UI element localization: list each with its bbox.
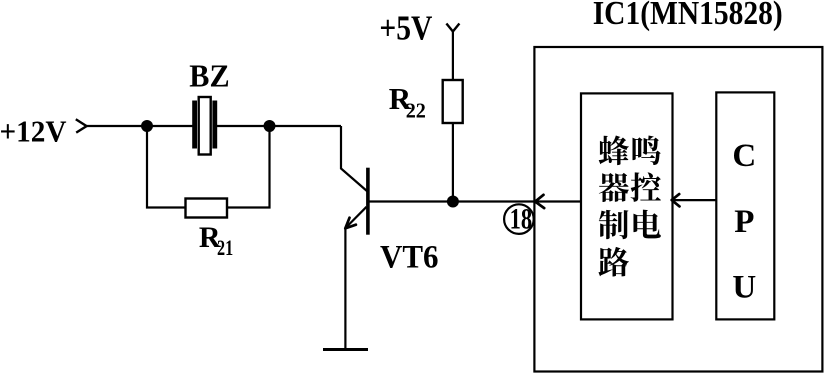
wire: CPU to buzzer-control block: [672, 199, 716, 201]
resistor R22 body: [443, 80, 463, 123]
label char "控" (kong) of 蜂鸣器控制电路: [631, 172, 661, 201]
wire: +12V rail to BZ left plate: [86, 125, 193, 127]
buzzer BZ body rectangle: [199, 97, 211, 155]
label IC1(MN15828): [593, 0, 783, 32]
node junction dot right of BZ: [264, 120, 276, 132]
label R21: [199, 221, 233, 260]
svg-text:P: P: [734, 204, 754, 240]
label BZ: [189, 58, 229, 94]
label VT6: [380, 239, 439, 275]
svg-text:IC1(MN15828): IC1(MN15828): [593, 0, 783, 32]
label U: [732, 269, 756, 305]
pin number 18: [510, 202, 533, 235]
label +5V: [379, 8, 432, 47]
label char "电" (dian) of 蜂鸣器控制电路: [633, 210, 660, 239]
block: buzzer control circuit box: [581, 93, 673, 319]
resistor R21 body: [186, 199, 228, 218]
wire: base of VT6 to IC pin 18 and buzzer-control block: [369, 200, 581, 202]
svg-text:+12V: +12V: [0, 114, 67, 149]
wire: +5V antenna symbol: [446, 24, 459, 32]
block: CPU box: [716, 92, 774, 319]
wire: emitter to ground: [344, 228, 346, 350]
svg-text:21: 21: [217, 235, 233, 260]
buzzer BZ right plate: [212, 101, 217, 149]
wire: R21 branch loop: [147, 126, 270, 208]
node junction dot at collector/R22: [447, 196, 459, 208]
label P: [734, 204, 754, 240]
arrowhead into buzzer-control block: [672, 194, 680, 206]
svg-text:C: C: [732, 138, 756, 174]
transistor VT6 emitter arrowhead: [345, 218, 356, 229]
label char "鸣" (ming) of 蜂鸣器控制电路: [632, 136, 660, 165]
ground symbol: [323, 348, 368, 351]
svg-text:18: 18: [510, 202, 533, 235]
label char "蜂" (feng) of 蜂鸣器控制电路: [599, 135, 629, 165]
label R22: [389, 81, 426, 123]
label char "制" (zhi) of 蜂鸣器控制电路: [599, 210, 629, 239]
transistor VT6 collector lead: [341, 126, 368, 192]
svg-text:22: 22: [406, 98, 426, 122]
label char "路" (lu) of 蜂鸣器控制电路: [598, 247, 628, 277]
wire: +5V down through R22 to collector node: [452, 32, 454, 202]
svg-text:VT6: VT6: [380, 239, 439, 275]
svg-text:+5V: +5V: [379, 8, 432, 47]
label char "器" (qi) of 蜂鸣器控制电路: [599, 173, 629, 202]
svg-text:U: U: [732, 269, 756, 305]
input chevron arrow: [76, 119, 87, 132]
transistor VT6 emitter lead: [347, 207, 367, 227]
node +12V input label: [0, 114, 67, 149]
pin 18 circle: [504, 204, 534, 234]
label C: [732, 138, 756, 174]
IC1 outer box: [534, 47, 822, 372]
wire: BZ right plate to transistor collector corner: [217, 125, 341, 127]
buzzer BZ left plate: [192, 101, 197, 149]
arrowhead into IC1 at pin 18: [535, 195, 544, 208]
svg-text:BZ: BZ: [189, 58, 229, 94]
transistor VT6 base bar: [366, 168, 370, 235]
node junction dot left of BZ: [141, 120, 153, 132]
